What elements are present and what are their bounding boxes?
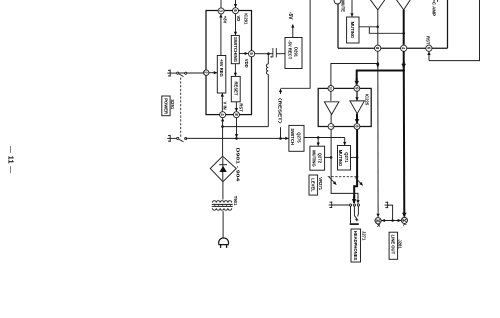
switch S291 pole A contacts	[177, 72, 179, 74]
Q272 MUTING block	[310, 146, 325, 170]
AC plug	[219, 238, 229, 248]
ganged pot dashed link	[328, 176, 359, 178]
VR271 LEVEL label	[309, 175, 323, 195]
pin 6 RST	[426, 45, 432, 51]
wire reset net vertical (switch pole B up to Q275)	[186, 137, 285, 139]
amp IC outline	[338, 0, 448, 48]
switch S291 pole B contacts	[177, 137, 179, 139]
+5V REG block (inside IC291)	[217, 56, 226, 94]
pin 10	[328, 86, 334, 92]
wire VIN line from pin4 to bridge	[222, 118, 224, 156]
capacitor C (polarized, series to -5V RECT)	[268, 48, 285, 59]
J281 LINE OUT label	[389, 232, 403, 259]
wire pin8 RST to reset net	[236, 118, 238, 138]
potentiometer VR271 wiper R	[329, 177, 336, 185]
svg-text:IC291: IC291	[243, 13, 248, 25]
svg-text:Q275: Q275	[296, 132, 301, 143]
svg-text:+5V REG: +5V REG	[219, 59, 224, 77]
wire between line out jacks	[381, 220, 401, 222]
wire L amp tip to pin4 (thick)	[403, 10, 405, 45]
wire ground to jacks	[388, 205, 393, 220]
svg-text:Q271: Q271	[344, 152, 349, 163]
wire L thick: pin6 to phone jack (with jog)	[354, 129, 357, 198]
arrow on L line	[403, 62, 405, 68]
svg-text:-5V: -5V	[287, 12, 293, 20]
svg-text:+8V: +8V	[223, 16, 228, 24]
svg-text:MUTING: MUTING	[311, 150, 316, 167]
pin 6	[233, 8, 239, 14]
arrow on R line	[377, 64, 379, 67]
svg-text:J281: J281	[398, 239, 403, 249]
wire R branch down to IC225 pin10	[331, 64, 378, 86]
diode bridge D901-904	[210, 148, 240, 183]
op-amp R (IC225 lower)	[324, 102, 339, 115]
Q271 MUTING block	[338, 146, 351, 171]
svg-text:RST: RST	[238, 103, 243, 112]
S291 POWER label	[162, 96, 175, 116]
svg-text:VR271: VR271	[318, 177, 323, 190]
op-amp L (IC225 upper)	[350, 101, 365, 114]
pin 2	[204, 70, 209, 75]
switch S291 pole B blade	[179, 139, 183, 142]
wire SWITCHING to RESET	[234, 64, 236, 76]
wire pin4 to +5V REG (V IN)	[221, 93, 223, 111]
svg-text:POWER: POWER	[163, 98, 168, 114]
svg-text:J271: J271	[362, 231, 367, 241]
pin 5 VDD	[249, 51, 255, 57]
wire pin6 to SWITCHING	[235, 14, 237, 35]
mechanical linkage dashed	[180, 78, 182, 138]
IC291 power-supply IC block outline	[206, 11, 252, 115]
wire RESET to pin8	[235, 102, 237, 111]
pin MUTE (cut at edge)	[334, 0, 341, 4]
node L split	[402, 69, 405, 72]
chassis ground comb (line out)	[385, 202, 388, 209]
svg-text:LINE OUT: LINE OUT	[391, 235, 396, 255]
-5V output arrow	[292, 25, 294, 38]
potentiometer VR271 wiper L	[355, 178, 362, 186]
op-amp triangle L (cut)	[396, 0, 412, 10]
node tap R	[330, 156, 333, 159]
wire op-amp to pin7	[330, 115, 332, 124]
wire +5V REG to pin3 (+8V)	[220, 14, 222, 55]
wire pin10 to op-amp	[330, 91, 332, 101]
svg-text:MUTING: MUTING	[338, 150, 343, 167]
wire MUTING to R line	[359, 26, 378, 28]
pin 9	[354, 86, 360, 92]
wire pin2 down to switch pole A	[179, 72, 204, 74]
wire pin3 to left edge (+8V rail out)	[220, 0, 222, 8]
node muting drive split	[317, 136, 320, 139]
node junction on VIN line	[221, 125, 224, 128]
wire coil line down to VIN line	[223, 126, 269, 128]
pin 8 (amp R out)	[375, 45, 381, 51]
wire mute input into MUTING	[351, 0, 353, 17]
wire L line thick: pin4 to LINE OUT L	[403, 51, 406, 216]
node tap L	[356, 156, 359, 159]
wire from left edge into pin6 (VD)	[235, 0, 237, 7]
wire RST return: pin6 to top-left rail	[429, 0, 480, 61]
wire op-amp to pin6 (thick arrow)	[356, 114, 358, 123]
svg-text:RESET: RESET	[233, 82, 238, 96]
wire SWITCHING to pin5 VDD	[239, 53, 248, 55]
chassis ground comb A	[167, 70, 176, 77]
pin 7 (IC225)	[328, 124, 334, 130]
wire R thin: pin7 to phone jack	[331, 129, 358, 198]
wire R amp tip to pin8	[377, 10, 379, 45]
pin 4	[220, 112, 226, 118]
wire to Q272 MUTING	[317, 138, 319, 146]
svg-text:RST: RST	[425, 36, 430, 45]
wire R line thin: pin8 to LINE OUT R	[377, 51, 379, 217]
pin 3	[218, 8, 224, 14]
inductor L (coil from VDD junction)	[266, 54, 268, 127]
svg-text:V IN: V IN	[222, 102, 227, 110]
pin 4 (amp L out)	[401, 45, 407, 51]
wire MUTING jog to L line	[369, 27, 403, 34]
svg-text:D291: D291	[293, 47, 298, 58]
wire pin5 VDD to junction	[255, 53, 269, 55]
chassis ground comb B	[167, 135, 176, 142]
cut-off text line stubs above C AMP	[437, 0, 439, 2]
pin 6 (IC225)	[354, 124, 360, 130]
svg-text:MUTE: MUTE	[340, 0, 345, 12]
chassis ground comb (phones)	[329, 202, 350, 209]
svg-text:Q272: Q272	[318, 153, 323, 164]
node MUTING tee	[376, 26, 379, 29]
IC225 block outline	[318, 88, 371, 126]
pin 8	[233, 112, 239, 118]
wire L branch down to IC225 pin9 (thick)	[357, 71, 404, 81]
MUTING block (inside amp IC)	[347, 17, 359, 43]
node line out ground	[391, 219, 394, 222]
wire transformer to plug	[222, 211, 224, 238]
op-amp triangle R (cut)	[369, 0, 385, 10]
svg-text:-5V RECT: -5V RECT	[287, 40, 292, 60]
node R split	[377, 62, 380, 65]
svg-text:S291: S291	[170, 99, 175, 109]
svg-text:HEADPHONES: HEADPHONES	[353, 231, 358, 261]
wire Q271 tap to L line	[351, 156, 358, 158]
wire pin9 to op-amp	[356, 91, 358, 100]
Q275 SWITCH block	[289, 125, 304, 151]
wire Q275 out up to muting drive	[304, 137, 345, 139]
jack LINE OUT L	[401, 217, 408, 223]
svg-text:C AMP: C AMP	[431, 2, 436, 16]
content in natural (unrotated) coordinates: 318 wide x 500 tall	[162, 0, 480, 262]
svg-text:L: L	[403, 224, 408, 227]
J271 HEADPHONES label	[351, 229, 367, 262]
wire reset flag arrow to top rail	[280, 89, 282, 94]
switch S291 pole A blade	[179, 74, 183, 77]
svg-text:R: R	[376, 224, 381, 227]
svg-text:D901 - 904: D901 - 904	[236, 148, 241, 183]
svg-text:SWITCHING: SWITCHING	[233, 37, 238, 62]
node MUTING to L	[402, 32, 405, 35]
wire reset to left edge	[281, 0, 311, 88]
wire pin2 to +5V REG	[209, 72, 217, 74]
RESET net flag wire	[280, 127, 282, 138]
svg-text:VDD: VDD	[244, 59, 249, 68]
svg-text:— 11 —: — 11 —	[7, 146, 14, 174]
headphone jack J271	[349, 204, 359, 224]
jack LINE OUT R	[375, 218, 382, 224]
svg-text:T901: T901	[233, 196, 238, 206]
RESET block (inside IC291)	[231, 76, 240, 101]
svg-text:VD: VD	[236, 16, 241, 22]
svg-text:10: 10	[329, 86, 333, 90]
wire Q272 tap to R line	[325, 156, 332, 158]
svg-text:SWITCH: SWITCH	[290, 128, 295, 145]
node junction VDD/coil/cap	[267, 52, 270, 55]
SWITCHING block (inside IC291)	[231, 35, 239, 63]
svg-text:MUTING: MUTING	[350, 22, 355, 39]
wire to Q271 MUTING	[344, 138, 346, 146]
D291 -5V RECT block	[285, 38, 302, 69]
node on reset net (RST)	[235, 137, 238, 140]
wire bridge to transformer	[222, 182, 224, 200]
node reset branch	[279, 137, 282, 140]
svg-text:LEVEL: LEVEL	[311, 178, 316, 192]
svg-text:IC225: IC225	[364, 94, 369, 106]
transformer T901	[212, 196, 238, 210]
